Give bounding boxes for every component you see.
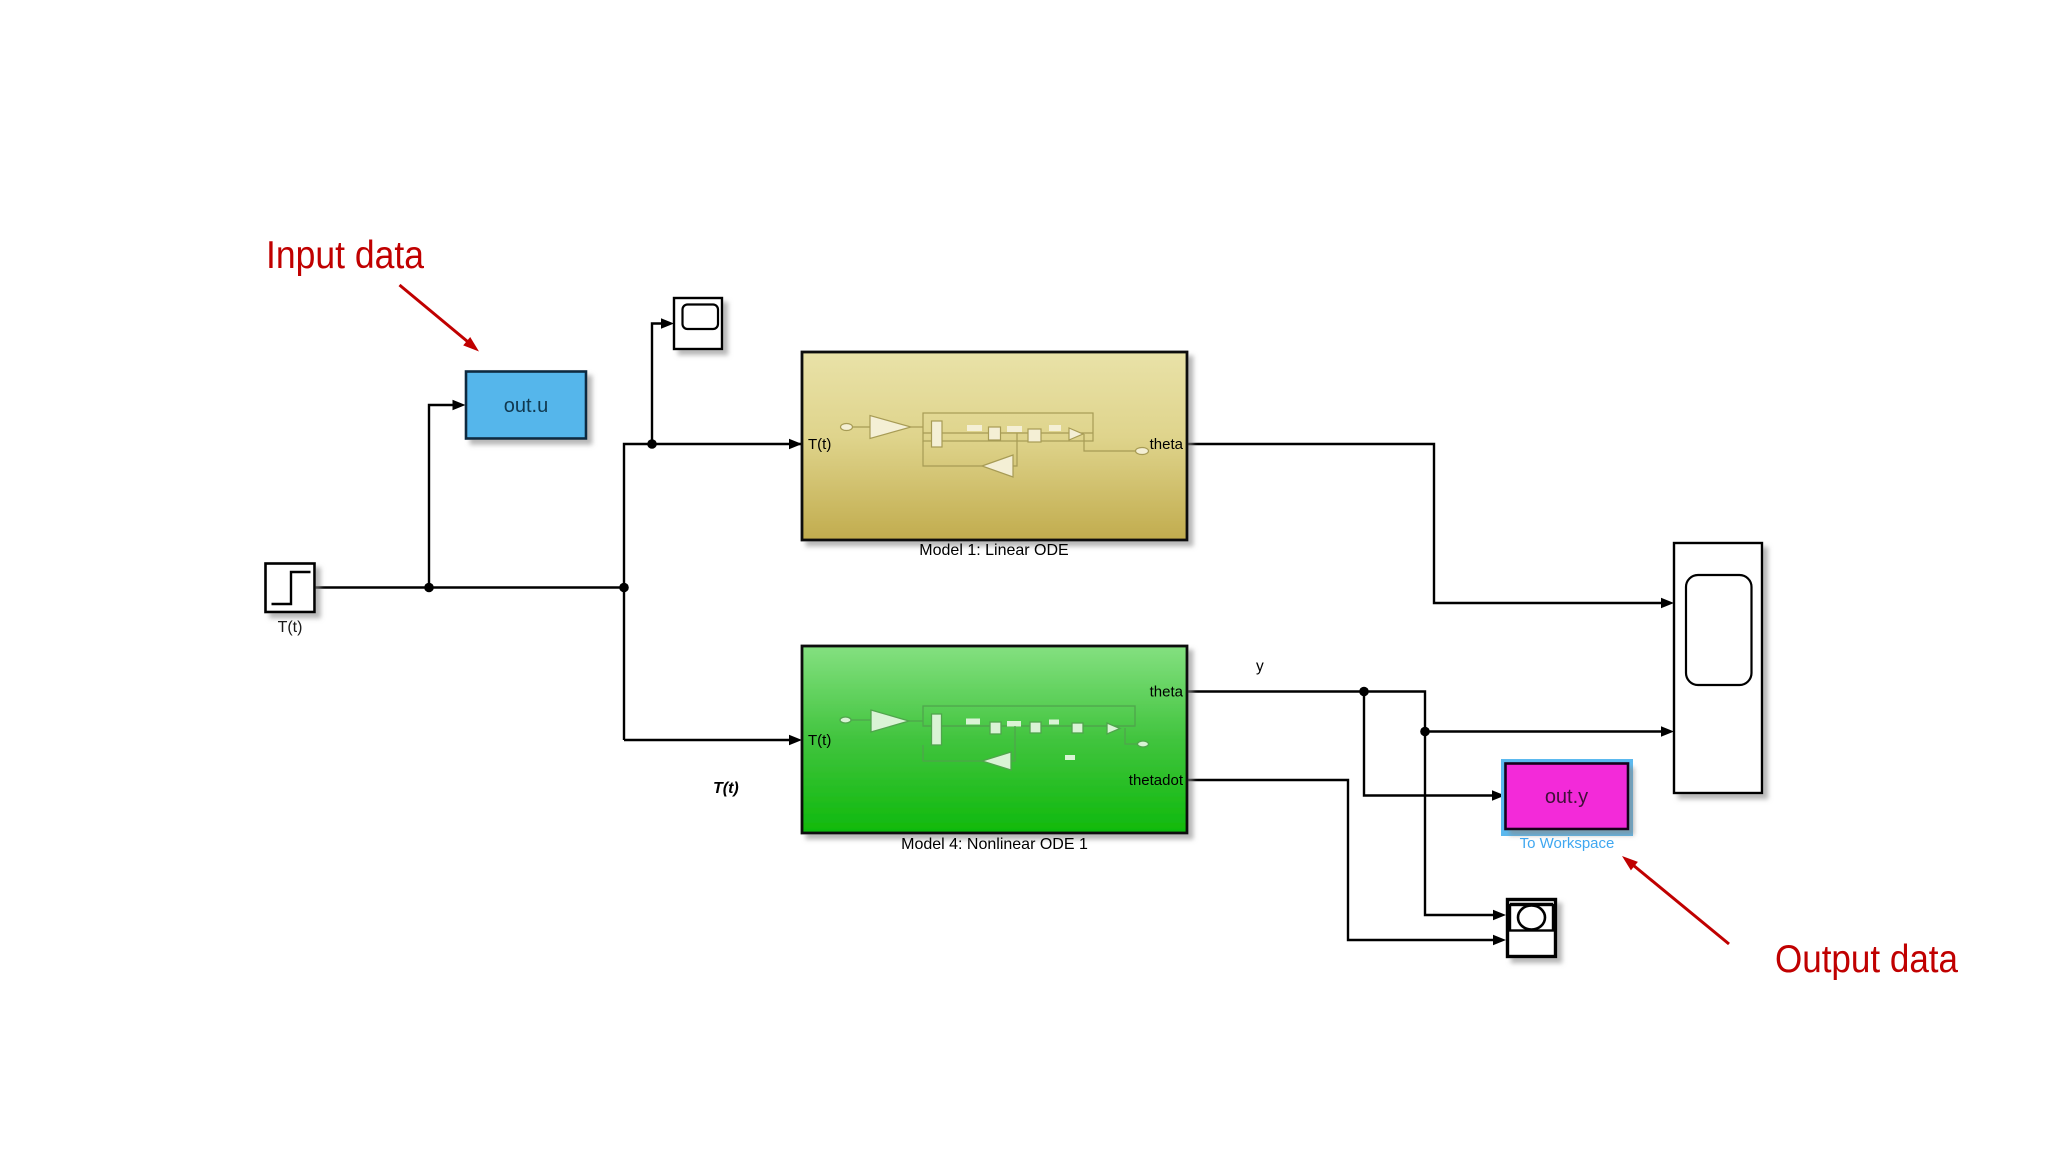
svg-text:Model 1: Linear ODE: Model 1: Linear ODE bbox=[919, 542, 1068, 559]
svg-text:T(t): T(t) bbox=[278, 619, 303, 636]
svg-text:Input data: Input data bbox=[266, 234, 424, 277]
junction D2 bbox=[1420, 727, 1430, 737]
svg-text:T(t): T(t) bbox=[808, 732, 831, 749]
subsystem Model 1: Linear ODE bbox=[802, 352, 1187, 540]
subsystem Model 4: Nonlinear ODE 1 bbox=[802, 646, 1187, 833]
scope block (top) bbox=[674, 298, 722, 349]
wire: branch to scope 1 bbox=[652, 324, 662, 445]
junction C bbox=[647, 439, 657, 449]
wire: branch to scope input 2 bbox=[1425, 730, 1662, 732]
Model 4 inner diagram bbox=[840, 706, 1149, 770]
step source block bbox=[266, 564, 315, 613]
scope block (right, 2 inputs) bbox=[1674, 543, 1762, 793]
svg-text:out.y: out.y bbox=[1545, 786, 1588, 808]
To Workspace block out.u bbox=[466, 372, 586, 439]
junction D1 bbox=[1359, 687, 1369, 697]
svg-text:To Workspace: To Workspace bbox=[1520, 835, 1615, 852]
wire: trunk into Model 4 input bbox=[624, 739, 790, 741]
XY graph block bbox=[1508, 900, 1556, 957]
arrowhead into Model 1 bbox=[789, 439, 802, 449]
Model 1 inner diagram bbox=[841, 413, 1149, 477]
wire: trunk vertical at junction B bbox=[624, 444, 802, 740]
wire: step output to junction B bbox=[315, 586, 624, 588]
svg-text:y: y bbox=[1256, 658, 1264, 675]
svg-text:thetadot: thetadot bbox=[1129, 772, 1184, 789]
annotation arrow to out.u bbox=[400, 285, 468, 342]
svg-text:out.u: out.u bbox=[504, 395, 548, 417]
svg-text:Model 4: Nonlinear ODE 1: Model 4: Nonlinear ODE 1 bbox=[901, 836, 1088, 853]
junction A bbox=[424, 583, 434, 593]
wire: Model 1 theta to scope input 1 bbox=[1187, 444, 1662, 603]
wire: Model 4 theta to XY input 1 bbox=[1187, 692, 1494, 916]
junction B bbox=[619, 583, 629, 593]
svg-text:Output data: Output data bbox=[1775, 938, 1958, 981]
svg-text:T(t): T(t) bbox=[808, 436, 831, 453]
wire: branch to out.y bbox=[1364, 692, 1493, 796]
annotation arrow to out.y bbox=[1633, 865, 1729, 944]
svg-text:theta: theta bbox=[1150, 436, 1184, 453]
wire: branch up to out.u bbox=[429, 405, 453, 588]
svg-text:theta: theta bbox=[1150, 684, 1184, 701]
To Workspace block out.y (selected) bbox=[1501, 759, 1633, 836]
svg-text:T(t): T(t) bbox=[713, 780, 739, 797]
wire: Model 4 thetadot to XY input 2 bbox=[1187, 780, 1494, 940]
